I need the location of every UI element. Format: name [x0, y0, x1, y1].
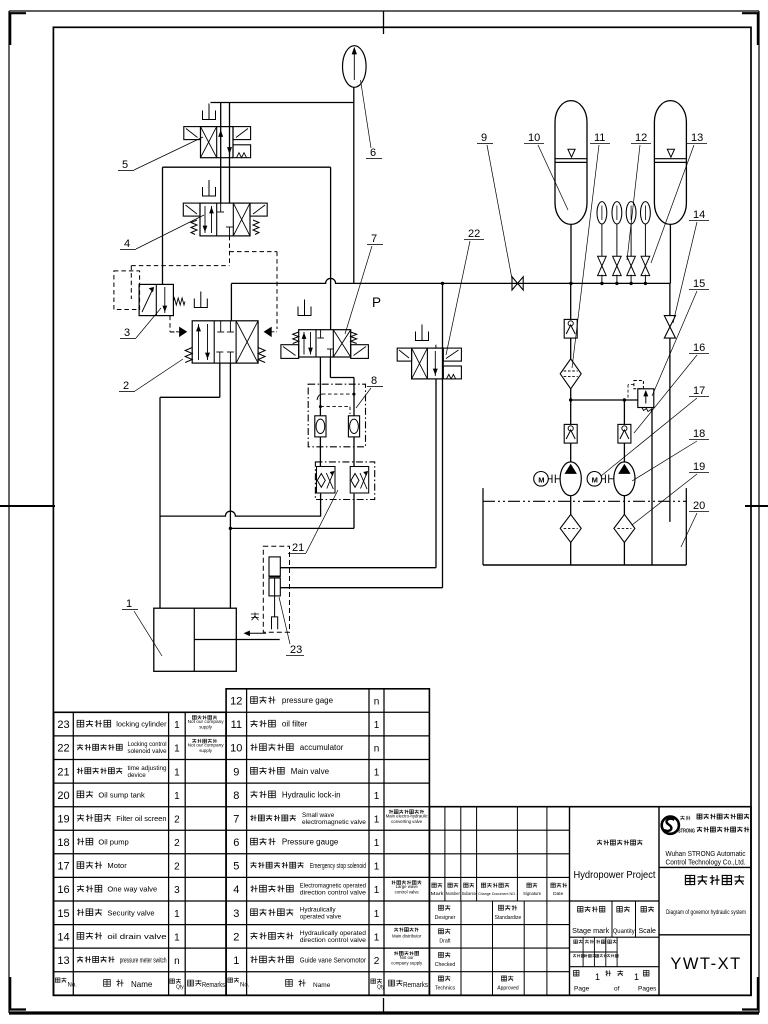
label 19: [632, 461, 709, 525]
svg-text:Checked: Checked: [435, 962, 456, 968]
svg-text:5: 5: [233, 861, 239, 873]
svg-text:Hydraulic lock-in: Hydraulic lock-in: [282, 790, 341, 799]
svg-text:1: 1: [174, 932, 180, 943]
svg-text:M: M: [538, 476, 544, 485]
svg-text:Change Document NO.: Change Document NO.: [478, 891, 516, 896]
label 9: [477, 132, 512, 279]
svg-text:Stage mark: Stage mark: [572, 928, 610, 935]
svg-text:oil filter: oil filter: [282, 720, 308, 729]
parts list table left: [54, 712, 227, 995]
svg-text:3: 3: [124, 327, 130, 339]
motor 17a: [534, 472, 560, 487]
label 15: [652, 278, 709, 396]
svg-text:electromagnetic valve: electromagnetic valve: [302, 819, 366, 826]
svg-text:direction control valve: direction control valve: [300, 937, 367, 944]
svg-text:n: n: [374, 744, 380, 755]
svg-text:17: 17: [693, 385, 705, 397]
label 11: [572, 132, 610, 368]
svg-text:Date: Date: [553, 891, 563, 897]
accumulator 13: [654, 101, 686, 225]
wire lock to throttle lines: [320, 437, 354, 466]
svg-text:5: 5: [122, 159, 128, 171]
drawing number YWT-XT: [670, 955, 741, 973]
label 16: [634, 342, 709, 433]
wire throttle cross line B: [229, 494, 354, 531]
wire main pressure line P: [231, 278, 670, 283]
svg-text:Large wave: Large wave: [396, 884, 419, 889]
svg-text:23: 23: [57, 719, 69, 731]
stage mark quantity scale cells: [572, 906, 656, 957]
svg-text:Motor: Motor: [107, 861, 127, 870]
svg-text:Qty: Qty: [176, 985, 184, 991]
label 17: [601, 385, 709, 476]
check valve 16a: [564, 319, 577, 338]
svg-text:3: 3: [174, 885, 180, 896]
svg-text:1: 1: [374, 885, 380, 896]
wire throttle cross line A: [160, 494, 321, 516]
valve V3 locking control solenoid valve: [139, 284, 185, 315]
wire servomotor work line A: [160, 363, 220, 608]
svg-text:8: 8: [233, 790, 239, 802]
svg-text:17: 17: [57, 861, 69, 873]
label 6: [361, 80, 383, 159]
svg-text:Mark: Mark: [431, 891, 445, 896]
svg-text:18: 18: [693, 428, 705, 440]
svg-text:Quantity: Quantity: [613, 928, 636, 935]
svg-text:22: 22: [57, 743, 69, 755]
valve V4 small wave electromagnetic valve: [183, 180, 267, 236]
svg-text:Approved: Approved: [497, 986, 519, 992]
svg-text:1: 1: [233, 955, 239, 967]
svg-text:21: 21: [57, 766, 69, 778]
svg-text:Signature: Signature: [523, 891, 542, 896]
wire valve7 feed line: [330, 167, 332, 330]
svg-text:1: 1: [595, 972, 600, 982]
svg-text:oil drain valve: oil drain valve: [107, 932, 166, 941]
svg-text:Pages: Pages: [638, 986, 657, 993]
oil pump 18a: [560, 462, 581, 496]
valve 9 main valve (shut-off): [512, 277, 523, 290]
parts table left header: [55, 978, 225, 991]
label 12: [627, 132, 651, 260]
suction filter 19b: [614, 514, 635, 542]
wire valve5 header line: [163, 166, 331, 168]
svg-text:1: 1: [174, 791, 180, 802]
svg-text:Electromagnetic operated: Electromagnetic operated: [300, 883, 367, 890]
svg-text:2: 2: [233, 931, 239, 943]
svg-text:of: of: [614, 986, 620, 993]
svg-text:18: 18: [57, 837, 69, 849]
valve V5 emergency stop solenoid valve: [184, 104, 251, 158]
svg-text:21: 21: [292, 542, 304, 554]
svg-text:13: 13: [691, 132, 703, 144]
wire relief drain: [651, 408, 653, 566]
svg-text:Diagram of governor hydraulic: Diagram of governor hydraulic system: [666, 909, 746, 916]
svg-text:Security valve: Security valve: [107, 908, 154, 917]
svg-text:1: 1: [374, 720, 380, 731]
title block change-record labels: [431, 883, 567, 897]
svg-text:14: 14: [57, 931, 69, 943]
label 3: [120, 308, 161, 339]
svg-text:Main electro-hydraulic: Main electro-hydraulic: [386, 813, 429, 818]
svg-text:Oil pump: Oil pump: [98, 838, 128, 847]
wire accumulator10 stem: [569, 224, 572, 285]
label 8: [356, 375, 383, 408]
svg-text:converting valve: converting valve: [391, 819, 423, 824]
svg-text:YWT-XT: YWT-XT: [670, 955, 741, 973]
svg-text:1: 1: [374, 838, 380, 849]
svg-text:pressure gage: pressure gage: [282, 696, 334, 705]
svg-text:12: 12: [230, 696, 242, 708]
svg-text:device: device: [128, 772, 147, 779]
svg-text:10: 10: [230, 743, 242, 755]
svg-text:20: 20: [57, 790, 69, 802]
svg-text:16: 16: [693, 342, 705, 354]
svg-text:Not our: Not our: [400, 955, 415, 960]
label 2: [119, 359, 183, 392]
svg-text:Emergency stop solenoid: Emergency stop solenoid: [310, 863, 366, 870]
wire pump header: [569, 398, 638, 401]
svg-text:Name: Name: [313, 982, 331, 989]
oil drain valve 14: [664, 316, 675, 339]
svg-text:9: 9: [481, 132, 487, 144]
svg-text:10: 10: [528, 132, 540, 144]
svg-text:P: P: [372, 295, 381, 310]
svg-text:2: 2: [123, 380, 129, 392]
svg-text:Name: Name: [131, 980, 153, 989]
svg-text:1: 1: [374, 932, 380, 943]
parts table left rows text: [57, 715, 224, 967]
wire item23 port lines: [280, 379, 436, 568]
svg-text:Not our company: Not our company: [188, 743, 225, 748]
svg-text:19: 19: [693, 461, 705, 473]
svg-text:pressure meter switch: pressure meter switch: [120, 957, 167, 964]
svg-text:2: 2: [174, 814, 180, 825]
svg-text:3: 3: [233, 908, 239, 920]
svg-text:12: 12: [635, 132, 647, 144]
svg-text:One way valve: One way valve: [107, 885, 157, 894]
suction filter 19a: [560, 514, 581, 542]
page number cell: [574, 970, 658, 992]
parts table right header: [228, 978, 429, 991]
check valve 16c: [618, 424, 631, 443]
svg-text:Hydraulically: Hydraulically: [300, 906, 337, 913]
svg-text:2: 2: [374, 956, 380, 967]
label 14: [673, 209, 709, 323]
svg-text:1: 1: [374, 909, 380, 920]
close direction arrow and glyph: [245, 613, 267, 636]
svg-text:Filter oil screen: Filter oil screen: [116, 816, 166, 823]
svg-text:14: 14: [693, 209, 705, 221]
svg-text:Draft: Draft: [439, 938, 451, 944]
label 5: [118, 137, 203, 171]
svg-text:19: 19: [57, 813, 69, 825]
svg-text:Remarks: Remarks: [403, 982, 428, 989]
svg-text:20: 20: [693, 500, 705, 512]
svg-text:1: 1: [126, 598, 132, 610]
parts table right rows text: [230, 696, 428, 967]
oil filter 11: [560, 359, 581, 389]
svg-text:Locking control: Locking control: [128, 741, 167, 748]
svg-text:1: 1: [174, 767, 180, 778]
svg-text:7: 7: [371, 233, 377, 245]
svg-text:23: 23: [290, 644, 302, 656]
company logo: [662, 814, 750, 867]
project name cell: [574, 840, 656, 881]
accumulator 10: [555, 101, 587, 225]
svg-text:2: 2: [174, 838, 180, 849]
label 23: [279, 597, 304, 656]
label 22: [446, 228, 484, 355]
svg-text:6: 6: [233, 837, 239, 849]
svg-text:9: 9: [233, 766, 239, 778]
wire valve5-valve4 lines: [219, 103, 232, 204]
hydraulic lock 8: [308, 384, 365, 447]
svg-text:operated valve: operated valve: [300, 913, 342, 920]
label 10: [524, 132, 568, 210]
svg-text:Hydraulically operated: Hydraulically operated: [300, 930, 367, 937]
svg-text:supply: supply: [199, 748, 212, 753]
label 13: [651, 132, 707, 263]
label 7: [345, 233, 383, 334]
wire gauge drop line: [353, 88, 355, 284]
parts list table right: [226, 689, 429, 996]
svg-text:1: 1: [174, 744, 180, 755]
wire pump column A: [570, 283, 572, 565]
svg-text:M: M: [592, 476, 598, 485]
svg-text:supply: supply: [199, 725, 212, 730]
motor 17b: [587, 472, 614, 487]
pressure gauges 12 with gauge valves: [597, 202, 650, 285]
wire top gauge header line: [211, 102, 354, 104]
svg-text:Scale: Scale: [638, 928, 656, 935]
label 21: [288, 490, 338, 554]
wire accumulator13 stem / right drain column: [669, 224, 672, 522]
svg-text:No.: No.: [68, 983, 78, 989]
svg-text:time adjusting: time adjusting: [128, 765, 168, 772]
svg-text:1: 1: [374, 862, 380, 873]
svg-text:Main distributor: Main distributor: [392, 933, 422, 938]
svg-text:Designer: Designer: [435, 915, 456, 921]
wire valve7 to lock lines: [320, 357, 354, 416]
svg-text:16: 16: [57, 884, 69, 896]
svg-text:Not our company: Not our company: [188, 719, 225, 724]
svg-text:11: 11: [231, 719, 242, 731]
svg-text:direction control valve: direction control valve: [300, 890, 367, 897]
svg-text:Technics: Technics: [435, 986, 456, 992]
svg-text:15: 15: [57, 908, 69, 920]
svg-text:locking cylinder: locking cylinder: [116, 720, 167, 729]
svg-text:Small wave: Small wave: [302, 812, 335, 819]
svg-text:Qty: Qty: [377, 985, 385, 991]
svg-text:control valve: control valve: [395, 890, 420, 895]
wire dashed pilot lines valve4 to valve2/valve3: [114, 236, 277, 332]
svg-text:Guide vane Servomotor: Guide vane Servomotor: [300, 957, 367, 964]
svg-text:7: 7: [233, 813, 239, 825]
valve V7 electromagnetic operated direction control valve: [281, 300, 369, 359]
svg-text:solenoid valve: solenoid valve: [128, 748, 168, 755]
label 18: [632, 428, 709, 481]
svg-text:company supply: company supply: [391, 960, 423, 965]
svg-text:Remarks: Remarks: [202, 982, 225, 989]
svg-text:2: 2: [174, 862, 180, 873]
wire pump column B: [623, 400, 625, 565]
svg-text:4: 4: [233, 884, 239, 896]
svg-text:1: 1: [374, 814, 380, 825]
security valve 15 relief: [628, 381, 654, 413]
svg-text:STRONG: STRONG: [678, 829, 695, 835]
svg-text:Wuhan STRONG Automatic: Wuhan STRONG Automatic: [666, 851, 746, 858]
pressure gauge 6: [343, 46, 367, 88]
svg-text:1: 1: [634, 972, 639, 982]
title block signoff labels: [435, 905, 522, 991]
svg-text:No.: No.: [240, 983, 250, 989]
svg-text:13: 13: [57, 955, 69, 967]
oil sump tank 20: [483, 488, 686, 565]
svg-text:1: 1: [374, 767, 380, 778]
check valve 16b: [564, 424, 577, 443]
svg-text:n: n: [174, 956, 180, 967]
throttle valves 21 (time adjusting device): [315, 462, 374, 500]
wire valve3 feed line: [162, 167, 164, 284]
svg-text:11: 11: [594, 132, 605, 144]
svg-text:n: n: [374, 697, 380, 708]
drawing title cell: [666, 875, 746, 916]
wire servomotor work line B: [229, 363, 231, 608]
svg-text:Main valve: Main valve: [291, 767, 330, 776]
label 20: [681, 500, 709, 547]
servomotor 1 guide vane servomotor: [154, 608, 280, 671]
label 1: [122, 598, 162, 656]
valve V2 hydraulically operated direction control valve (main distributor): [171, 292, 277, 364]
oil pump 18b: [614, 462, 635, 496]
svg-text:4: 4: [124, 238, 130, 250]
label 4: [120, 215, 204, 250]
svg-text:1: 1: [174, 720, 180, 731]
title block frame: [429, 807, 751, 996]
svg-text:15: 15: [693, 278, 705, 290]
svg-text:Pressure gauge: Pressure gauge: [282, 838, 339, 847]
svg-text:6: 6: [370, 147, 376, 159]
svg-text:1: 1: [374, 791, 380, 802]
svg-text:Control Technology Co.,Ltd.: Control Technology Co.,Ltd.: [666, 860, 746, 867]
svg-text:1: 1: [174, 909, 180, 920]
svg-text:Number: Number: [446, 891, 460, 896]
wire P to valve2: [230, 283, 232, 320]
svg-text:Page: Page: [574, 986, 590, 993]
svg-text:22: 22: [468, 228, 480, 240]
valve V22 hydraulically operated valve: [397, 325, 461, 379]
svg-text:Subarea: Subarea: [462, 891, 477, 896]
node P label: [372, 295, 381, 310]
svg-text:8: 8: [371, 375, 377, 387]
svg-text:Oil sump tank: Oil sump tank: [98, 790, 145, 799]
svg-text:Standardize: Standardize: [495, 915, 522, 921]
svg-text:accumulator: accumulator: [300, 743, 344, 752]
svg-text:Hydropower Project: Hydropower Project: [574, 870, 656, 881]
locking cylinder 23: [263, 546, 289, 632]
